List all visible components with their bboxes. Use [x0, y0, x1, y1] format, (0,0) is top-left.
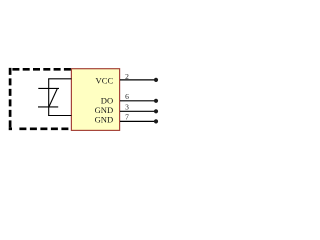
svg-text:7: 7: [125, 113, 129, 122]
svg-text:GND: GND: [95, 105, 114, 115]
svg-text:6: 6: [125, 92, 129, 101]
svg-text:VCC: VCC: [96, 76, 114, 86]
svg-text:3: 3: [125, 103, 129, 112]
svg-text:2: 2: [125, 72, 129, 81]
svg-text:GND: GND: [95, 115, 114, 125]
